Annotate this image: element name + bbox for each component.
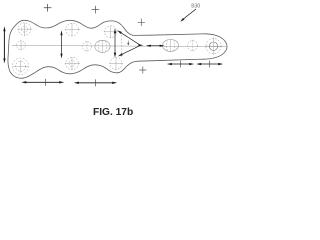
- D4 tick cross: [179, 61, 181, 67]
- shaft hole S1 dashed circle with axis: [192, 40, 194, 52]
- hole B3 crosshair: [110, 58, 124, 70]
- shaft end hole S2: solid circle, dashed circle, crosshair: [209, 42, 217, 50]
- shaft underside dimension arrow D4: [167, 63, 194, 65]
- bottom dimension arrow D1: [21, 81, 64, 83]
- shaft horizontal dimension arrow: [146, 45, 165, 47]
- svg-text:830: 830: [191, 4, 200, 10]
- angle dimension upper leg: [117, 30, 141, 45]
- D1 tick cross: [45, 79, 47, 86]
- hole B2 crosshair: [65, 58, 80, 70]
- dashed hinge line between head and shaft: [121, 32, 123, 58]
- hole B2 dashed circles: [66, 57, 79, 70]
- hole B3 dashed circle: [110, 57, 122, 69]
- hole T2 dashed circle: [66, 23, 79, 36]
- shaft underside dimension arrow D5: [196, 63, 223, 65]
- registration plus mark 4: [138, 19, 145, 26]
- svg-text:FIG. 17b: FIG. 17b: [93, 107, 133, 118]
- hole T1 dashed circles: [18, 23, 31, 36]
- D5 tick cross: [208, 61, 210, 67]
- registration plus mark 1: [44, 4, 51, 11]
- vertical dimension arrow A3: [114, 28, 116, 57]
- hole E1 ellipse with crosshair: [95, 40, 110, 52]
- centerline through holes and shaft: [12, 45, 226, 46]
- angle dimension vertex arrowhead: [138, 44, 143, 46]
- shaft hole E2 ellipse with crosshair: [163, 39, 179, 51]
- registration plus mark 3: [140, 67, 147, 74]
- registration plus mark 2: [92, 6, 99, 13]
- small down-tick on centerline near hinge: [127, 41, 129, 46]
- leader arrow from 830: [180, 9, 196, 22]
- hole T3 dashed circle: [105, 26, 117, 38]
- hole M1 small dashed circle with axis: [20, 41, 22, 51]
- hole T1 crosshair: [18, 23, 33, 36]
- angle dimension lower leg: [118, 45, 141, 56]
- plate outline: [8, 20, 227, 78]
- bottom dimension arrow D2: [74, 82, 117, 84]
- hole B1 dashed circles: [16, 61, 26, 71]
- vertical dimension arrow A1 (far left): [3, 26, 5, 63]
- vertical dimension arrow A2: [60, 30, 62, 58]
- hole B1 crosshair: [14, 61, 29, 73]
- hole M2 dashed circle with axis: [86, 42, 88, 52]
- hole T3 crosshair: [104, 26, 118, 38]
- D2 tick cross: [95, 80, 97, 87]
- hole T2 crosshair: [65, 24, 80, 37]
